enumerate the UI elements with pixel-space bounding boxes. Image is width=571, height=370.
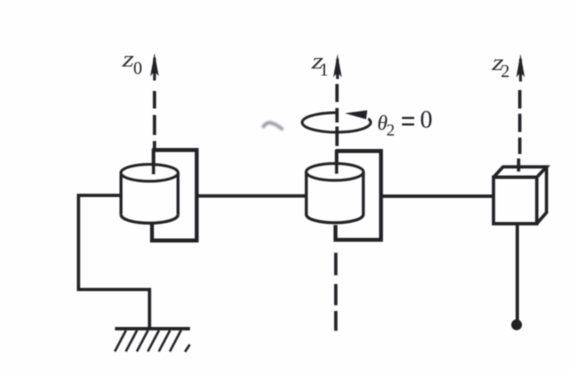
axis z1 dashed line lower (334, 253, 337, 331)
ground hatching (115, 330, 190, 352)
link 2 (joint 2 to end effector) (381, 194, 493, 197)
joint 2 bracket (336, 151, 382, 240)
joint 1 pin (152, 149, 156, 175)
joint 2 cylinder body (306, 172, 363, 215)
axis z2 arrowhead (516, 54, 525, 78)
end-effector cube right face (537, 167, 547, 224)
axis z0 arrowhead (150, 53, 159, 77)
link 1 (joint 1 to joint 2) (197, 194, 308, 197)
svg-text:2: 2 (501, 61, 510, 81)
printing smudge artifact (263, 123, 284, 130)
rotation arrow ellipse around z1 (302, 113, 371, 133)
joint 1 cylinder bottom arc (121, 215, 178, 223)
ground surface line (115, 327, 190, 330)
end-effector stick (516, 224, 519, 322)
axis z1 dashed line upper (335, 84, 338, 146)
axis z1 arrow stem (336, 59, 339, 79)
axis z2 dashed line (519, 90, 520, 172)
joint 2 pin (335, 150, 339, 175)
svg-text:2: 2 (386, 121, 395, 140)
end-effector cube front face (494, 177, 537, 224)
joint 2 cylinder top ellipse (306, 164, 363, 181)
axis z0 dashed line (153, 91, 156, 150)
svg-text:1: 1 (320, 60, 329, 80)
axis z1 arrowhead (333, 54, 342, 78)
joint 1 cylinder top ellipse (121, 165, 178, 182)
svg-text:0: 0 (420, 107, 433, 134)
joint 2 cylinder bottom arc (306, 215, 363, 223)
end-effector cube top face (494, 167, 547, 177)
end-effector tip dot (511, 319, 522, 330)
axis z2 arrow stem (519, 59, 522, 82)
joint 1 cylinder body (121, 173, 178, 215)
joint 1 bracket (152, 150, 197, 241)
svg-text:0: 0 (133, 58, 142, 78)
axis z0 arrow stem (153, 58, 156, 81)
rotation arrowhead (345, 110, 368, 119)
base link from ground to joint 1 (79, 195, 150, 328)
